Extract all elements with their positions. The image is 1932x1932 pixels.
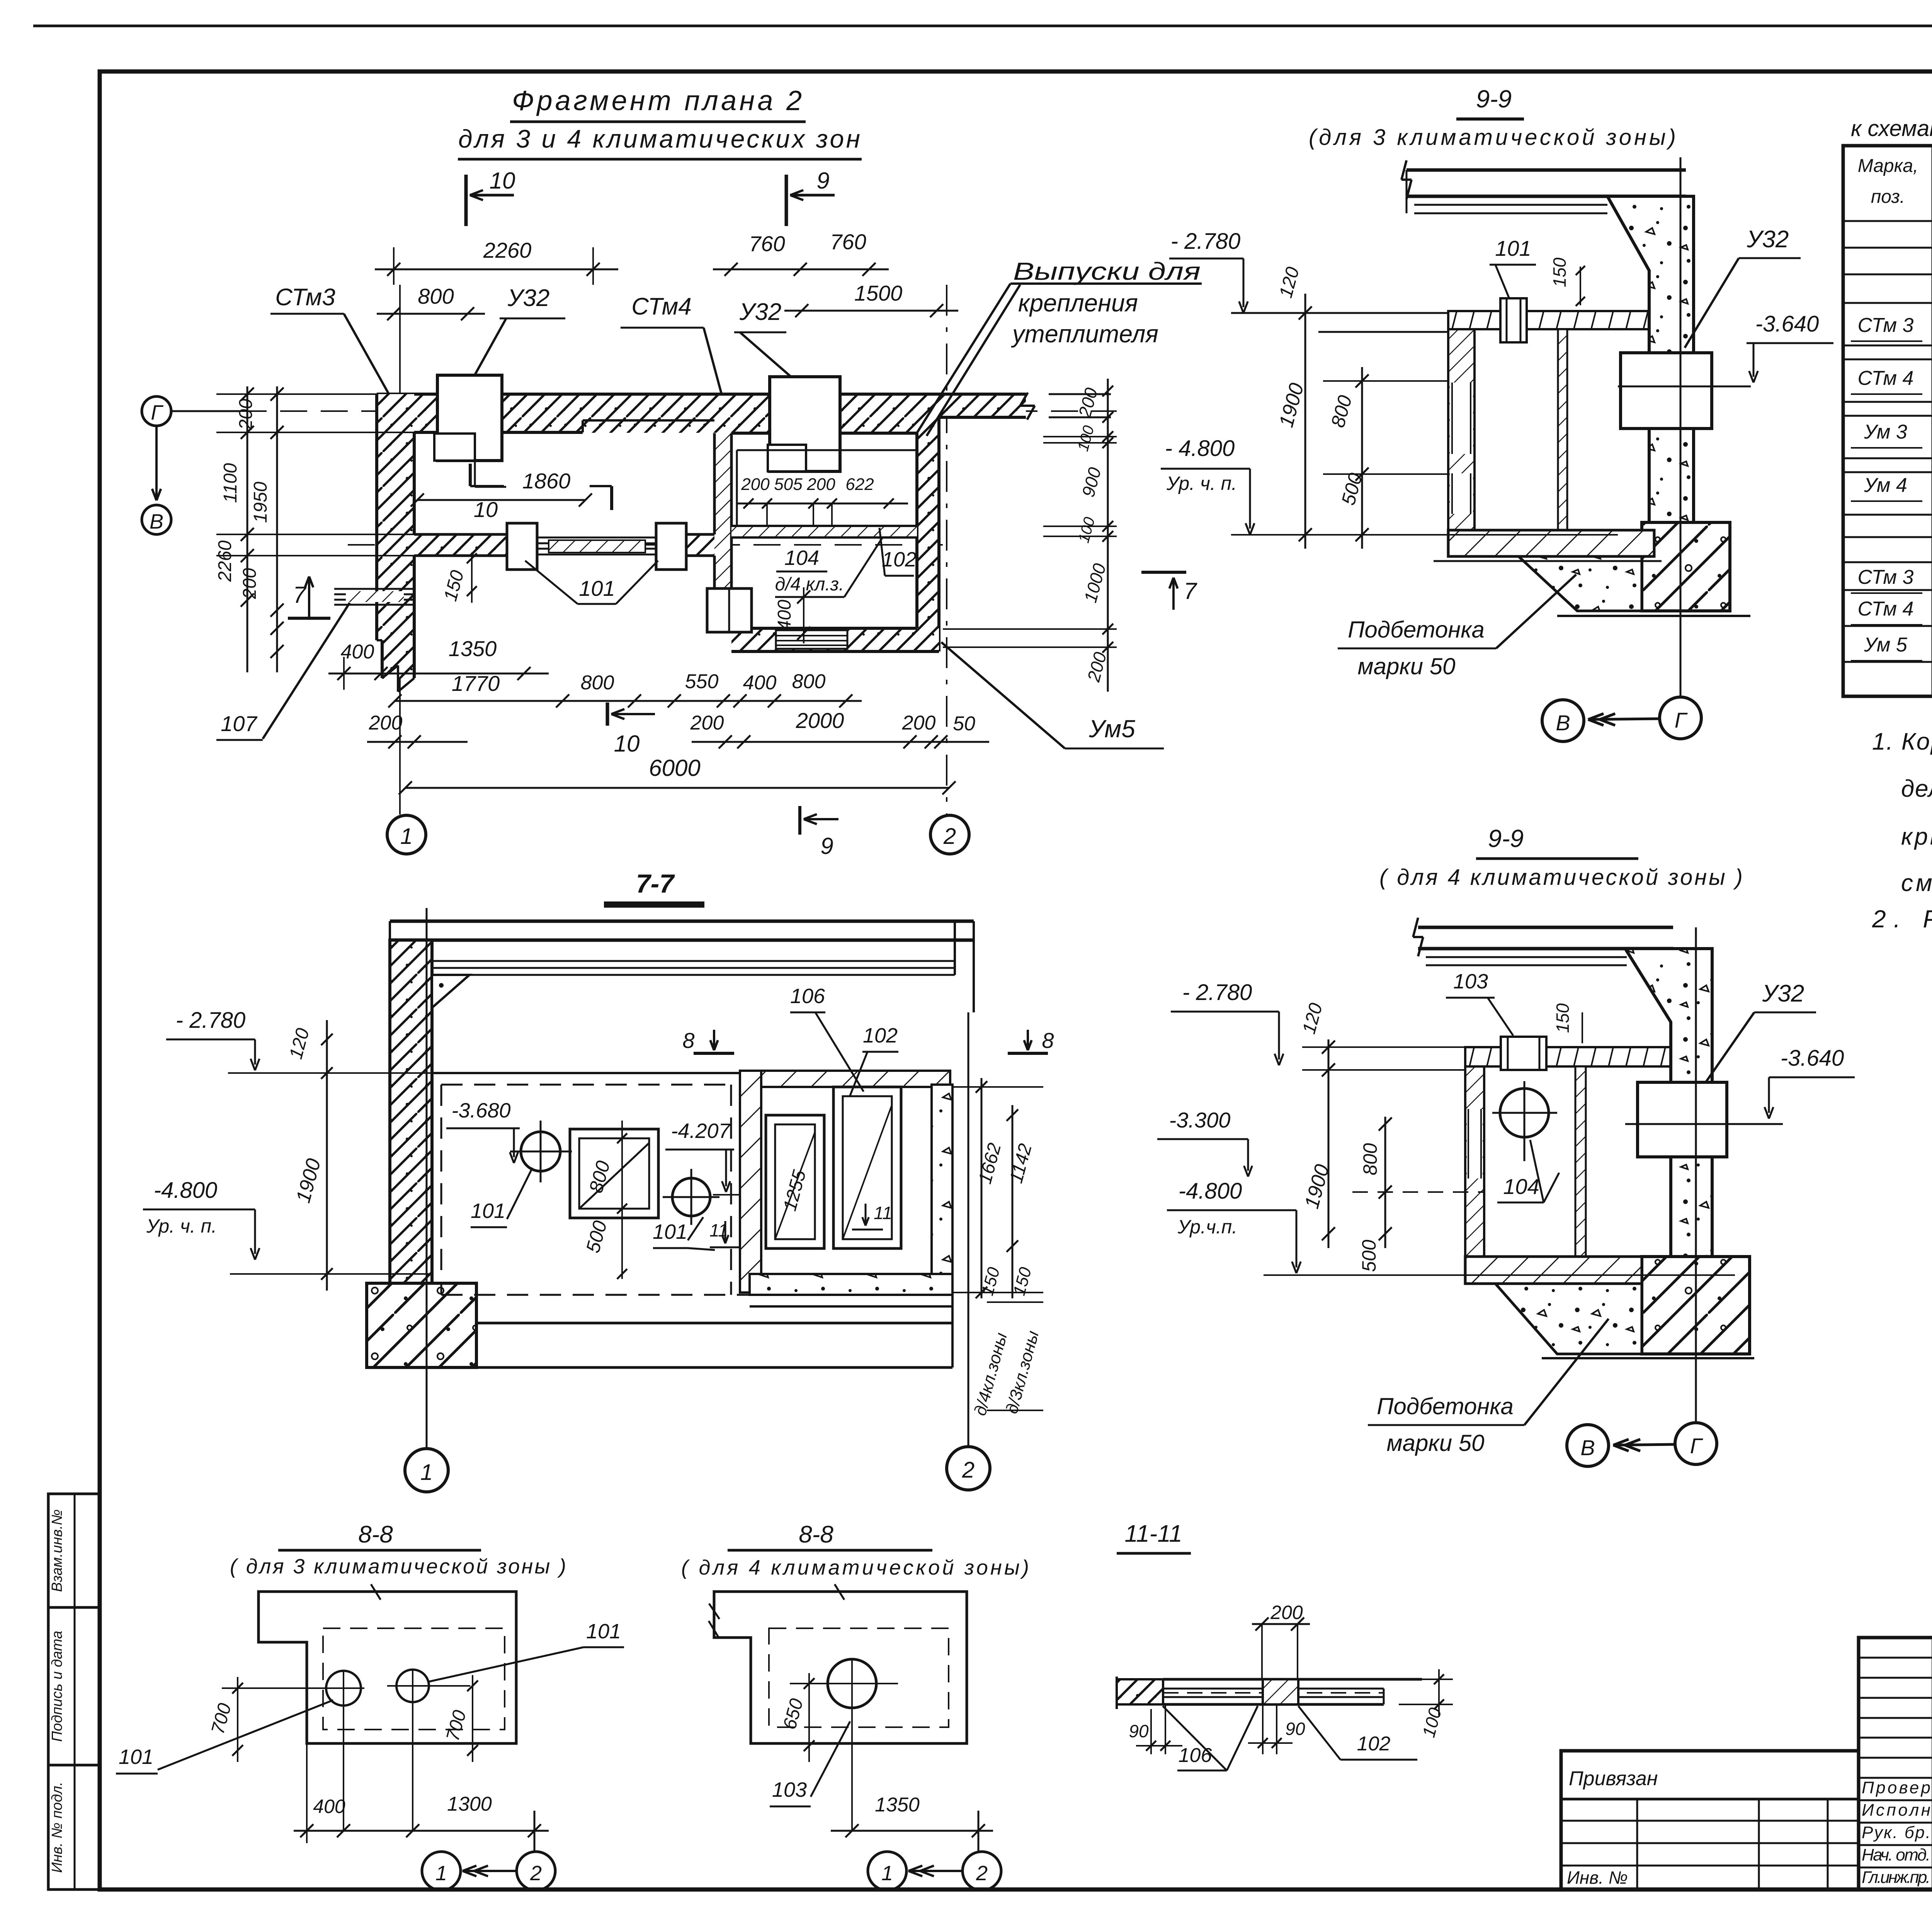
svg-text:У32: У32 [1762,980,1804,1007]
7-7 window frame (left room) [570,1129,658,1218]
svg-text:2260: 2260 [483,238,532,262]
plan right vertical dim chain [1107,379,1109,692]
svg-text:СТм3: СТм3 [275,284,335,311]
7-7 hole circle 101 (left) [521,1132,560,1171]
8-8(3) dashed inner [323,1628,505,1730]
svg-text:400: 400 [313,1796,345,1817]
svg-text:- 4.800: - 4.800 [1165,436,1235,461]
svg-text:102: 102 [882,548,917,571]
svg-text:СТм 4: СТм 4 [1858,598,1914,620]
svg-text:Гл.инж.пр.: Гл.инж.пр. [1862,1868,1930,1887]
dim 1860 with section-10 continuation marks [417,499,585,501]
svg-text:1: 1 [435,1862,447,1885]
svg-text:-3.680: -3.680 [451,1099,510,1122]
plan left vertical dim chain 200/1100/1950/200/2260 [247,386,248,672]
svg-text:1: 1 [881,1862,893,1885]
svg-text:Выпуски для: Выпуски для [1013,257,1201,285]
svg-text:Фрагмент плана 2: Фрагмент плана 2 [512,85,802,116]
7-7 wall top chamfer [432,975,469,1008]
svg-text:Г: Г [151,401,163,424]
9-9(3) footing [1642,522,1730,611]
8-8(4) dashed inner [769,1628,949,1727]
svg-text:9-9: 9-9 [1488,825,1524,852]
svg-text:10: 10 [490,168,515,194]
page top edge line [33,25,1932,27]
svg-text:800: 800 [418,284,454,308]
svg-text:11: 11 [874,1203,892,1223]
svg-text:200: 200 [806,475,835,494]
9-9(3) chamber cover slab [1448,311,1649,329]
7-7 footing [367,1283,476,1367]
svg-text:1860: 1860 [522,469,571,493]
8-8(4) bubbles 1 2 with view arrow [868,1852,906,1890]
7-7 left wall [390,940,432,1283]
svg-text:6000: 6000 [649,755,700,781]
8-8(4) hole circle 103 [828,1659,876,1708]
svg-text:( для 3 климатической зоны ): ( для 3 климатической зоны ) [230,1555,566,1578]
7-7 right chamber walls [740,1071,950,1087]
svg-text:550: 550 [685,670,719,693]
svg-text:1: 1 [400,824,413,849]
7-7 hole circle 101 (middle) [672,1178,710,1216]
9-9(4) right wall with chamfer [1625,949,1712,1257]
svg-text:- 2.780: - 2.780 [1182,980,1252,1005]
svg-text:200: 200 [690,712,724,734]
svg-text:СТм 3: СТм 3 [1858,314,1914,337]
svg-text:1350: 1350 [875,1794,920,1816]
plan: right chamber Ум5 walls [917,417,939,651]
7-7 axis 1 line and bubble [426,908,428,1449]
svg-text:Инв. № подл.: Инв. № подл. [49,1782,65,1873]
svg-text:103: 103 [1453,970,1488,993]
svg-text:В: В [1556,711,1570,735]
svg-text:10: 10 [474,497,498,522]
7-7 bottom slab lines [476,1322,952,1325]
svg-text:Ум 4: Ум 4 [1864,474,1907,497]
9-9(3) upper level line 2 [1318,331,1448,333]
svg-text:8-8: 8-8 [358,1521,393,1548]
7-7 frame B [833,1087,901,1248]
left margin stamp column [48,1494,100,1889]
svg-text:90: 90 [1285,1719,1305,1739]
svg-text:760: 760 [830,230,866,254]
svg-text:Ум 5: Ум 5 [1864,634,1908,656]
svg-text:-4.800: -4.800 [154,1178,217,1203]
svg-text:200: 200 [741,475,770,494]
section marker 9 (bottom) [798,806,801,835]
plan: middle passage walls with sleeve 101 [414,534,507,556]
svg-text:8-8: 8-8 [799,1521,833,1548]
svg-text:Ур. ч. п.: Ур. ч. п. [1166,473,1237,494]
9-9(3) view arrow В-Г [1588,719,1660,719]
svg-text:марки 50: марки 50 [1387,1430,1485,1456]
svg-text:101: 101 [1495,236,1531,260]
svg-text:9-9: 9-9 [1476,85,1512,113]
plan axis dash line Г [240,410,1117,412]
section marker 10 (bottom) [606,702,609,726]
specification table grid [1843,146,1932,696]
svg-text:101: 101 [653,1220,687,1243]
svg-text:к схемам: к схемам [1851,116,1932,141]
9-9(4) Г bubble [1675,1423,1717,1464]
7-7 axis 2 line and bubble [968,1012,969,1446]
svg-text:200: 200 [240,568,260,599]
svg-text:У32: У32 [1747,226,1789,253]
svg-text:200: 200 [902,712,936,734]
svg-text:1350: 1350 [449,636,497,661]
svg-text:622: 622 [845,475,874,494]
svg-text:102: 102 [1357,1733,1391,1755]
9-9(3) top slab [1406,168,1686,172]
plan axis 2 vertical and bubble 2 [946,285,947,815]
svg-text:104: 104 [784,546,819,570]
dims 200 505 200 622 (inner chain) [737,503,908,505]
svg-text:8: 8 [682,1028,694,1053]
svg-text:200: 200 [369,712,403,734]
svg-text:800: 800 [792,670,826,693]
9-9(3) Г bubble [1660,697,1701,739]
svg-text:Ум5: Ум5 [1088,715,1135,743]
svg-text:101: 101 [579,576,615,600]
svg-text:Нач. отд.: Нач. отд. [1862,1845,1930,1864]
svg-text:( для 4 климатической зоны ): ( для 4 климатической зоны ) [1379,865,1743,890]
9-9(4) top slab [1418,926,1673,929]
svg-text:400: 400 [774,600,795,631]
svg-text:В: В [150,510,163,533]
plan: У32 box right [770,377,840,471]
svg-text:760: 760 [749,231,785,256]
svg-text:1: 1 [420,1460,433,1485]
7-7 frame A (1255) [766,1115,824,1248]
9-9(4) В bubble [1567,1425,1609,1466]
9-9(3) chamber bottom slab [1448,530,1654,556]
plan axis 1 vertical [399,285,401,815]
9-9(3) У32 box [1621,353,1712,429]
svg-text:102: 102 [863,1024,898,1047]
svg-text:1950: 1950 [250,481,271,523]
svg-text:Ур.ч.п.: Ур.ч.п. [1177,1216,1237,1238]
7-7 dashed room outline [441,1084,731,1086]
plan: 107 sleeve through left wall [334,588,413,590]
9-9(3) chamber middle divider [1558,329,1567,530]
dim 760 760 (top chain) [713,269,889,270]
8-8(3) outline [259,1592,516,1743]
svg-text:2: 2 [976,1862,988,1885]
8-8(4) outline [714,1592,967,1743]
svg-text:Г: Г [1675,708,1688,732]
9-9(4) подбетонка [1495,1284,1642,1354]
svg-text:-3.300: -3.300 [1169,1108,1231,1132]
svg-text:Ур. ч. п.: Ур. ч. п. [146,1215,217,1237]
plan: У32 box left [437,375,502,461]
svg-text:101: 101 [119,1745,153,1769]
svg-text:505: 505 [774,475,803,494]
9-9(3) chamber left wall [1448,329,1475,530]
svg-text:-4.207: -4.207 [671,1119,731,1143]
svg-text:Взам.инв.№: Взам.инв.№ [49,1509,65,1592]
9-9(4) hole circle 104 [1500,1088,1549,1137]
9-9(4) chamber bottom slab [1465,1257,1642,1284]
9-9(4) chamber cover band [1465,1047,1671,1066]
plan bottom dim row: 1770 800 550 400 800 [395,700,862,702]
9-9(3) right wall with chamfer [1607,196,1694,522]
svg-text:200: 200 [236,399,256,430]
dim 1500 (right) [784,310,958,312]
svg-text:утеплителя: утеплителя [1011,320,1158,348]
svg-text:400: 400 [341,641,374,663]
axis В bubble [142,505,171,534]
svg-text:СТм 4: СТм 4 [1858,367,1914,389]
plan dim 6000 [405,787,949,789]
9-9(4) sleeve 103 box [1501,1037,1546,1070]
svg-text:(для 3 климатической зоны): (для 3 климатической зоны) [1309,125,1676,150]
svg-text:Инв. №: Инв. № [1567,1867,1628,1888]
svg-text:Привязан: Привязан [1569,1767,1658,1790]
9-9(3) подбетонка [1519,556,1642,611]
9-9(4) footing [1642,1257,1750,1354]
svg-text:Подпись и дата: Подпись и дата [49,1631,65,1742]
svg-text:Марка,: Марка, [1858,156,1918,176]
9-9(4) Г axis vertical [1695,927,1697,1423]
svg-text:2: 2 [530,1862,542,1885]
svg-text:107: 107 [221,711,257,736]
svg-text:8: 8 [1042,1028,1054,1053]
svg-text:Рук. бр.: Рук. бр. [1862,1823,1930,1842]
svg-text:В: В [1580,1435,1595,1460]
svg-text:200: 200 [1270,1602,1303,1623]
svg-text:2260: 2260 [215,540,235,582]
8-8(3) bubbles 1 2 with view arrow [422,1852,461,1890]
svg-text:- 2.780: - 2.780 [176,1008,246,1033]
svg-text:СТм 3: СТм 3 [1858,566,1914,588]
9-9(4) view arrow В-Г [1613,1444,1675,1445]
dim 800 (У32 position left) [377,313,485,315]
7-7 floor level line [432,1072,740,1074]
plan: middle wall СТм4 vertical [714,433,731,628]
svg-text:800: 800 [581,672,614,694]
svg-text:1300: 1300 [447,1793,492,1815]
svg-text:Подбетонка: Подбетонка [1348,617,1485,643]
svg-text:90: 90 [1129,1721,1149,1741]
svg-text:марки 50: марки 50 [1358,653,1456,679]
svg-text:Г: Г [1690,1434,1703,1458]
plan bottom dim row: 200 2000 200 50 [367,741,468,743]
svg-text:150: 150 [1549,257,1570,287]
svg-text:У32: У32 [739,299,782,325]
9-9(4) У32 box [1638,1082,1727,1157]
9-9(4) chamber left wall [1465,1066,1484,1284]
7-7 top slab [390,920,974,923]
svg-text:поз.: поз. [1871,187,1905,207]
svg-text:-4.800: -4.800 [1179,1179,1242,1204]
svg-text:дел III альбом 3 (приложение): дел III альбом 3 (приложение). Коробки У… [1901,776,1932,802]
plan: д/4 кл.з. sleeve box 104 on middle wall [707,588,752,632]
svg-text:1. Коробки У32 и М31 устан: 1. Коробки У32 и М31 установить по ТДК-Н… [1872,728,1932,755]
svg-text:103: 103 [772,1778,807,1801]
svg-text:106: 106 [790,985,825,1008]
8-8(4) dim 1350 [831,1830,993,1832]
plan: top wall band [377,394,939,433]
plan: left wall СТм3 (vertical) [377,394,414,640]
title block: left extension (Привязан) [1561,1751,1859,1889]
svg-text:-3.640: -3.640 [1781,1046,1844,1071]
svg-text:У32: У32 [507,285,550,311]
svg-text:СТм4: СТм4 [631,293,692,320]
svg-text:500: 500 [1358,1240,1380,1272]
section marker 9 (top) [785,175,788,226]
title block: central signature grid [1859,1638,1932,1889]
9-9(4) chamber middle divider [1575,1066,1586,1257]
plan axis dash line В (middle passage) [348,544,947,546]
svg-text:- 2.780: - 2.780 [1171,229,1241,254]
svg-text:2000: 2000 [796,708,844,733]
svg-text:9: 9 [820,833,833,859]
svg-text:1770: 1770 [452,671,500,696]
svg-text:150: 150 [1553,1003,1573,1033]
svg-text:50: 50 [953,713,975,735]
11-11 slab detail [1117,1679,1163,1704]
svg-text:для 3 и 4 климатических зон: для 3 и 4 климатических зон [458,124,860,153]
9-9(3) В bubble [1542,700,1584,742]
svg-text:( для 4 климатической зоны): ( для 4 климатической зоны) [681,1556,1029,1579]
plan bottom dim row: 400 1350 [328,673,549,675]
svg-text:1500: 1500 [854,281,903,305]
dim 2260 (top chain) [375,269,618,270]
svg-text:106: 106 [1179,1744,1212,1767]
section marker 10 (top) [464,175,468,226]
svg-text:7-7: 7-7 [636,869,675,898]
8-8(3) dims 400 1300 [294,1830,549,1832]
svg-text:10: 10 [614,731,640,757]
svg-text:11-11: 11-11 [1124,1520,1182,1547]
svg-text:крепления: крепления [1018,289,1138,317]
svg-text:101: 101 [586,1620,621,1643]
svg-text:2: 2 [943,824,956,849]
svg-text:1100: 1100 [220,463,241,503]
8-8(3) hole circles 101 [326,1671,361,1706]
svg-text:Ум 3: Ум 3 [1864,421,1907,443]
svg-text:400: 400 [743,672,777,694]
svg-text:крышкой вниз. Спецификацию: крышкой вниз. Спецификацию коробок У32 и… [1901,823,1932,850]
svg-text:Подбетонка: Подбетонка [1377,1393,1514,1419]
9-9(3) sleeve 101 box [1500,298,1527,342]
svg-text:104: 104 [1503,1174,1539,1199]
svg-text:см. чертежи марки ОВ.: см. чертежи марки ОВ. [1901,870,1932,896]
svg-text:7: 7 [1184,578,1197,604]
svg-text:800: 800 [1359,1143,1381,1175]
svg-text:2: 2 [962,1458,975,1483]
axis Г bubble with view arrow to В bubble [142,396,171,426]
svg-text:-3.640: -3.640 [1755,311,1819,337]
svg-text:9: 9 [816,168,829,194]
9-9(3) Г axis vertical [1680,157,1682,697]
svg-text:101: 101 [471,1199,505,1223]
